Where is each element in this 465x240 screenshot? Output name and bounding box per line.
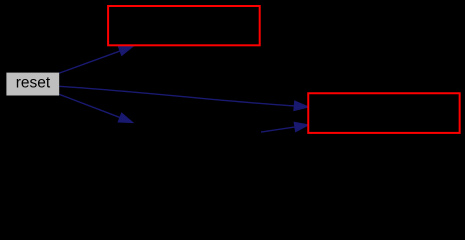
edge reset->top-box (wire) [59,46,133,73]
node reset [6,73,59,96]
node right red box [308,93,459,133]
node top red box [108,6,260,45]
edge reset->right-box (wire) [59,86,308,110]
edge reset->hidden-node (wire) [59,94,132,122]
svg-text:reset: reset [16,74,51,91]
edge hidden-node->right-box (wire) [261,122,309,132]
